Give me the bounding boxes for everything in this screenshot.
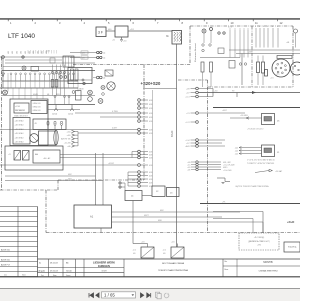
svg-text:Bb: Bb bbox=[66, 263, 69, 265]
svg-text:1: 1 bbox=[10, 21, 12, 25]
svg-text:AZUR PLT: AZUR PLT bbox=[1, 264, 11, 267]
svg-text:3x: 3x bbox=[39, 263, 41, 265]
svg-text:Motorraum Brennst: Motorraum Brennst bbox=[194, 43, 197, 62]
svg-text:2*1.0*11.0*11*40*11*AB2*11*AB1: 2*1.0*11.0*11*40*11*AB2*11*AB1.5D bbox=[247, 158, 276, 161]
svg-text:+Y5,NL43,Y47,L4T2: +Y5,NL43,Y47,L4T2 bbox=[247, 129, 263, 131]
svg-text:4.0RT: 4.0RT bbox=[112, 127, 118, 129]
svg-text:4: 4 bbox=[272, 26, 273, 28]
svg-text:+D1: +D1 bbox=[270, 78, 274, 80]
svg-text:Bw.: Bw. bbox=[225, 261, 228, 263]
svg-text:+D+: +D+ bbox=[276, 74, 280, 76]
svg-text:+C4+CHΩ: +C4+CHΩ bbox=[223, 170, 232, 172]
svg-text:4: 4 bbox=[267, 26, 268, 28]
svg-text:GRAU 4B: GRAU 4B bbox=[33, 102, 42, 105]
svg-text:4B2T: 4B2T bbox=[144, 215, 150, 217]
svg-text:6B8: 6B8 bbox=[158, 220, 162, 222]
svg-text:MONTIB: MONTIB bbox=[263, 261, 273, 264]
svg-text:+4B GRAU: +4B GRAU bbox=[15, 141, 25, 144]
svg-text:+4B: +4B bbox=[286, 42, 290, 44]
svg-text:5: 5 bbox=[108, 21, 110, 25]
svg-text:6B2: 6B2 bbox=[160, 210, 164, 212]
svg-text:СХЕМА ЭЛЕКТРИЧ: СХЕМА ЭЛЕКТРИЧ bbox=[259, 270, 278, 273]
svg-text:499: 499 bbox=[82, 52, 85, 54]
svg-text:4: 4 bbox=[263, 26, 264, 28]
svg-text:Bww.: Bww. bbox=[225, 269, 229, 271]
svg-text:+D7: +D7 bbox=[186, 143, 190, 145]
svg-text:+P+T-МОД.: +P+T-МОД. bbox=[254, 237, 265, 239]
svg-text:+S20+S20: +S20+S20 bbox=[141, 81, 161, 86]
svg-text:EHINGEN: EHINGEN bbox=[98, 264, 110, 268]
svg-text:J1: J1 bbox=[277, 152, 280, 154]
svg-text:4B1: 4B1 bbox=[42, 51, 44, 54]
svg-text:8: 8 bbox=[182, 21, 184, 25]
svg-text:+7+D: +7+D bbox=[15, 106, 21, 108]
svg-text:4B1: 4B1 bbox=[33, 51, 35, 54]
svg-text:+41+GB: +41+GB bbox=[64, 142, 71, 144]
svg-text:(4): (4) bbox=[103, 78, 106, 80]
svg-text:+Ω2: +Ω2 bbox=[235, 154, 238, 156]
svg-text:Angabe: Angabe bbox=[39, 269, 46, 272]
svg-text:4B: 4B bbox=[35, 123, 38, 125]
svg-text:+L34: +L34 bbox=[185, 140, 189, 142]
svg-text:(1): (1) bbox=[103, 58, 106, 60]
svg-text:4: 4 bbox=[255, 26, 256, 28]
svg-text:+4E: +4E bbox=[187, 170, 191, 172]
svg-text:11: 11 bbox=[255, 21, 258, 25]
svg-text:+D2: +D2 bbox=[133, 250, 136, 252]
svg-text:LIEBHERR WERK: LIEBHERR WERK bbox=[93, 261, 115, 265]
svg-text:+30 БАТ: +30 БАТ bbox=[275, 170, 283, 173]
svg-text:GRAU 4B: GRAU 4B bbox=[33, 109, 42, 112]
svg-text:AZUR 000: AZUR 000 bbox=[1, 259, 10, 262]
svg-text:4A5B: 4A5B bbox=[79, 87, 84, 90]
svg-text:+A5 -A2: +A5 -A2 bbox=[43, 157, 51, 160]
svg-text:+4B GRAU: +4B GRAU bbox=[15, 124, 25, 127]
svg-text:4: 4 bbox=[277, 26, 278, 28]
svg-text:AVB RT GE: AVB RT GE bbox=[61, 138, 71, 141]
svg-text:10: 10 bbox=[231, 21, 234, 25]
svg-text:4: 4 bbox=[259, 26, 260, 28]
svg-text:ВОСТОЧНАЯ СХЕМА: ВОСТОЧНАЯ СХЕМА bbox=[162, 262, 184, 265]
svg-text:+A28: +A28 bbox=[185, 145, 189, 148]
svg-text:*D5*AB2*11*+30*AC*40*11*AB*4Ω1: *D5*AB2*11*+30*AC*40*11*AB*4Ω1 bbox=[247, 162, 274, 165]
svg-text:+L74: +L74 bbox=[185, 122, 189, 124]
svg-text:+410: +410 bbox=[66, 132, 70, 134]
svg-text:Dat: Dat bbox=[4, 273, 7, 276]
svg-text:+D4: +D4 bbox=[141, 242, 144, 244]
svg-text:LTF 1040: LTF 1040 bbox=[8, 33, 35, 40]
svg-text:ЩИТОК ПОВОРОТНАЯ ПЛАТФОРМА: ЩИТОК ПОВОРОТНАЯ ПЛАТФОРМА bbox=[236, 185, 270, 188]
svg-text:J3: J3 bbox=[170, 193, 173, 195]
svg-text:+4B7: +4B7 bbox=[222, 110, 228, 112]
svg-text:4Ω ΩΩ: 4Ω ΩΩ bbox=[68, 114, 74, 116]
svg-text:+L13: +L13 bbox=[185, 97, 189, 99]
svg-text:ПЭД МОД: ПЭД МОД bbox=[288, 247, 297, 249]
svg-text:+D+D: +D+D bbox=[287, 220, 294, 224]
svg-text:4: 4 bbox=[84, 21, 86, 25]
svg-text:3b: 3b bbox=[166, 35, 169, 38]
svg-text:+Ω2: +Ω2 bbox=[235, 151, 238, 153]
svg-text:+41B2: +41B2 bbox=[108, 163, 115, 165]
svg-text:4150: 4150 bbox=[46, 51, 50, 53]
svg-text:J5: J5 bbox=[277, 121, 280, 123]
svg-text:BA40: BA40 bbox=[170, 130, 174, 137]
svg-text:+4B GRAU: +4B GRAU bbox=[15, 132, 25, 135]
svg-text:4Ω ΩΩ: 4Ω ΩΩ bbox=[52, 114, 58, 116]
svg-text:+5Ω 4ΩΩ: +5Ω 4ΩΩ bbox=[240, 115, 248, 117]
svg-text:+4B GRAU: +4B GRAU bbox=[15, 136, 25, 139]
svg-text:9: 9 bbox=[206, 21, 208, 25]
svg-text:7: 7 bbox=[157, 21, 159, 25]
svg-text:+30: +30 bbox=[214, 90, 218, 92]
svg-text:4Ω: 4Ω bbox=[163, 253, 166, 255]
svg-text:ПОВОРОТНАЯ ПЛАТФОРМА: ПОВОРОТНАЯ ПЛАТФОРМА bbox=[158, 269, 188, 272]
svg-text:2: 2 bbox=[35, 21, 37, 25]
svg-text:29.21.03: 29.21.03 bbox=[50, 270, 59, 272]
svg-text:A1: A1 bbox=[90, 215, 94, 219]
svg-text:+Ω2: +Ω2 bbox=[235, 148, 238, 150]
svg-text:REPEATER: REPEATER bbox=[15, 109, 26, 112]
svg-text:3: 3 bbox=[59, 21, 61, 25]
svg-text:+30: +30 bbox=[123, 41, 127, 43]
svg-text:+D4: +D4 bbox=[171, 242, 174, 244]
svg-text:GRAU 4B: GRAU 4B bbox=[33, 105, 42, 108]
svg-text:(ДВИГАТЕЛЬ-ПЛАТФ. НОТ): (ДВИГАТЕЛЬ-ПЛАТФ. НОТ) bbox=[248, 240, 270, 243]
svg-text:4A: 4A bbox=[35, 153, 38, 156]
svg-text:+H1: +H1 bbox=[257, 245, 261, 247]
svg-text:4B1: 4B1 bbox=[29, 51, 31, 54]
svg-text:+C3: +C3 bbox=[186, 113, 190, 115]
svg-text:+D8: +D8 bbox=[186, 89, 190, 91]
svg-text:+409: +409 bbox=[66, 135, 70, 137]
svg-text:GRAU GELB ROT: GRAU GELB ROT bbox=[14, 115, 28, 118]
svg-text:GessD: GessD bbox=[66, 270, 72, 272]
svg-text:4B1: 4B1 bbox=[25, 51, 27, 54]
svg-text:4B1: 4B1 bbox=[8, 51, 10, 54]
svg-text:RT: RT bbox=[232, 90, 235, 92]
svg-text:12: 12 bbox=[280, 21, 283, 25]
svg-text:497: 497 bbox=[82, 57, 85, 59]
svg-text:4B1: 4B1 bbox=[37, 51, 39, 54]
svg-text:(1): (1) bbox=[103, 53, 106, 55]
svg-text:4Ω: 4Ω bbox=[133, 253, 136, 255]
svg-text:Nam: Nam bbox=[22, 274, 26, 276]
svg-text:-41: -41 bbox=[8, 154, 11, 156]
svg-text:J2: J2 bbox=[156, 191, 159, 193]
svg-text:J4: J4 bbox=[131, 196, 134, 198]
svg-text:4B1: 4B1 bbox=[21, 51, 23, 54]
svg-text:4B1: 4B1 bbox=[12, 51, 14, 54]
svg-text:GmbH: GmbH bbox=[101, 271, 107, 273]
svg-text:+HB: +HB bbox=[67, 146, 71, 148]
svg-text:-31: -31 bbox=[112, 40, 116, 42]
svg-text:6: 6 bbox=[133, 21, 135, 25]
svg-text:28.11.03: 28.11.03 bbox=[50, 263, 59, 265]
svg-text:0.75BL: 0.75BL bbox=[112, 111, 118, 113]
svg-text:4 4 4: 4 4 4 bbox=[228, 27, 232, 29]
svg-text:4B1: 4B1 bbox=[16, 51, 18, 54]
svg-text:4Ω4B: 4Ω4B bbox=[33, 94, 39, 96]
svg-text:3 F: 3 F bbox=[98, 31, 103, 35]
svg-text:1 / 65: 1 / 65 bbox=[104, 292, 115, 297]
svg-text:+P1: +P1 bbox=[222, 201, 225, 203]
svg-text:+4B GRAU: +4B GRAU bbox=[15, 120, 25, 123]
svg-text:+D7: +D7 bbox=[186, 93, 190, 95]
svg-text:AZUR 000: AZUR 000 bbox=[1, 249, 10, 252]
svg-text:+D2: +D2 bbox=[163, 250, 166, 252]
